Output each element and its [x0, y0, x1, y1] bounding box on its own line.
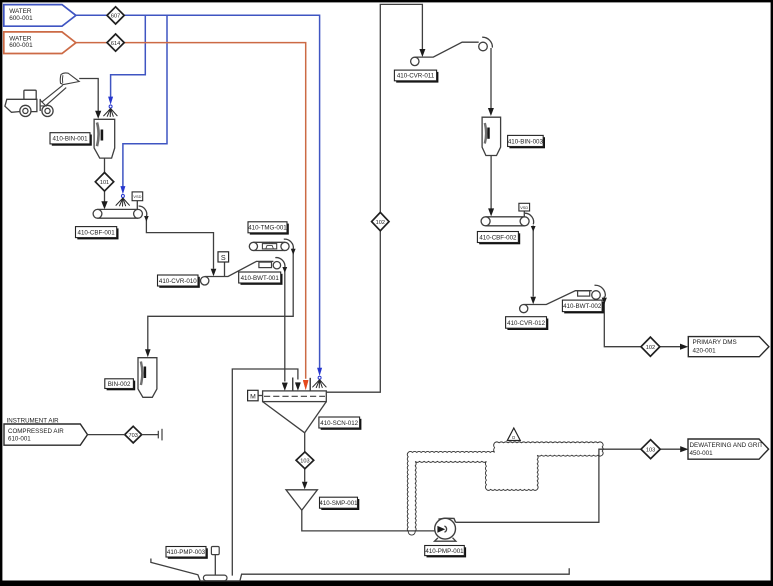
- svg-text:PRIMARY DMS: PRIMARY DMS: [693, 339, 737, 346]
- svg-text:S: S: [221, 253, 226, 262]
- svg-text:103: 103: [646, 447, 655, 453]
- svg-text:INSTRUMENT AIR: INSTRUMENT AIR: [7, 417, 60, 424]
- svg-text:D: D: [512, 435, 515, 440]
- svg-text:COMPRESSED AIR: COMPRESSED AIR: [8, 428, 64, 435]
- svg-text:101: 101: [100, 180, 109, 186]
- svg-text:410-PMP-003: 410-PMP-003: [167, 549, 206, 556]
- svg-text:614: 614: [111, 41, 120, 47]
- svg-text:DEWATERING AND GRIT: DEWATERING AND GRIT: [690, 442, 764, 449]
- svg-text:600-001: 600-001: [9, 42, 33, 49]
- svg-text:410-BWT-002: 410-BWT-002: [563, 303, 602, 310]
- svg-text:410-PMP-001: 410-PMP-001: [425, 548, 464, 555]
- svg-text:410-CVR-010: 410-CVR-010: [159, 278, 197, 285]
- svg-text:410-BIN-003: 410-BIN-003: [508, 138, 544, 145]
- svg-text:410-BIN-001: 410-BIN-001: [52, 136, 88, 143]
- svg-text:102: 102: [646, 345, 655, 351]
- svg-text:607: 607: [111, 14, 120, 20]
- svg-text:M: M: [250, 393, 256, 400]
- svg-text:VSD: VSD: [133, 194, 141, 199]
- svg-text:410-CBF-002: 410-CBF-002: [479, 234, 517, 241]
- svg-text:410-CVR-012: 410-CVR-012: [507, 320, 545, 327]
- svg-text:VSD: VSD: [520, 205, 528, 210]
- svg-text:703: 703: [129, 433, 138, 439]
- svg-text:410-CBF-001: 410-CBF-001: [78, 229, 116, 236]
- svg-text:420-001: 420-001: [693, 348, 717, 355]
- svg-text:410-SCN-012: 410-SCN-012: [320, 420, 358, 427]
- svg-text:102: 102: [376, 220, 385, 226]
- svg-text:BIN-002: BIN-002: [108, 381, 131, 388]
- svg-text:610-001: 610-001: [8, 436, 31, 443]
- svg-text:410-BWT-001: 410-BWT-001: [241, 275, 280, 282]
- svg-text:450-001: 450-001: [690, 450, 714, 457]
- svg-text:600-001: 600-001: [9, 15, 33, 22]
- svg-text:410-CVR-011: 410-CVR-011: [397, 73, 435, 80]
- svg-text:410-SMP-001: 410-SMP-001: [319, 500, 358, 507]
- svg-text:103: 103: [300, 459, 309, 465]
- svg-text:410-TMG-001: 410-TMG-001: [248, 225, 287, 232]
